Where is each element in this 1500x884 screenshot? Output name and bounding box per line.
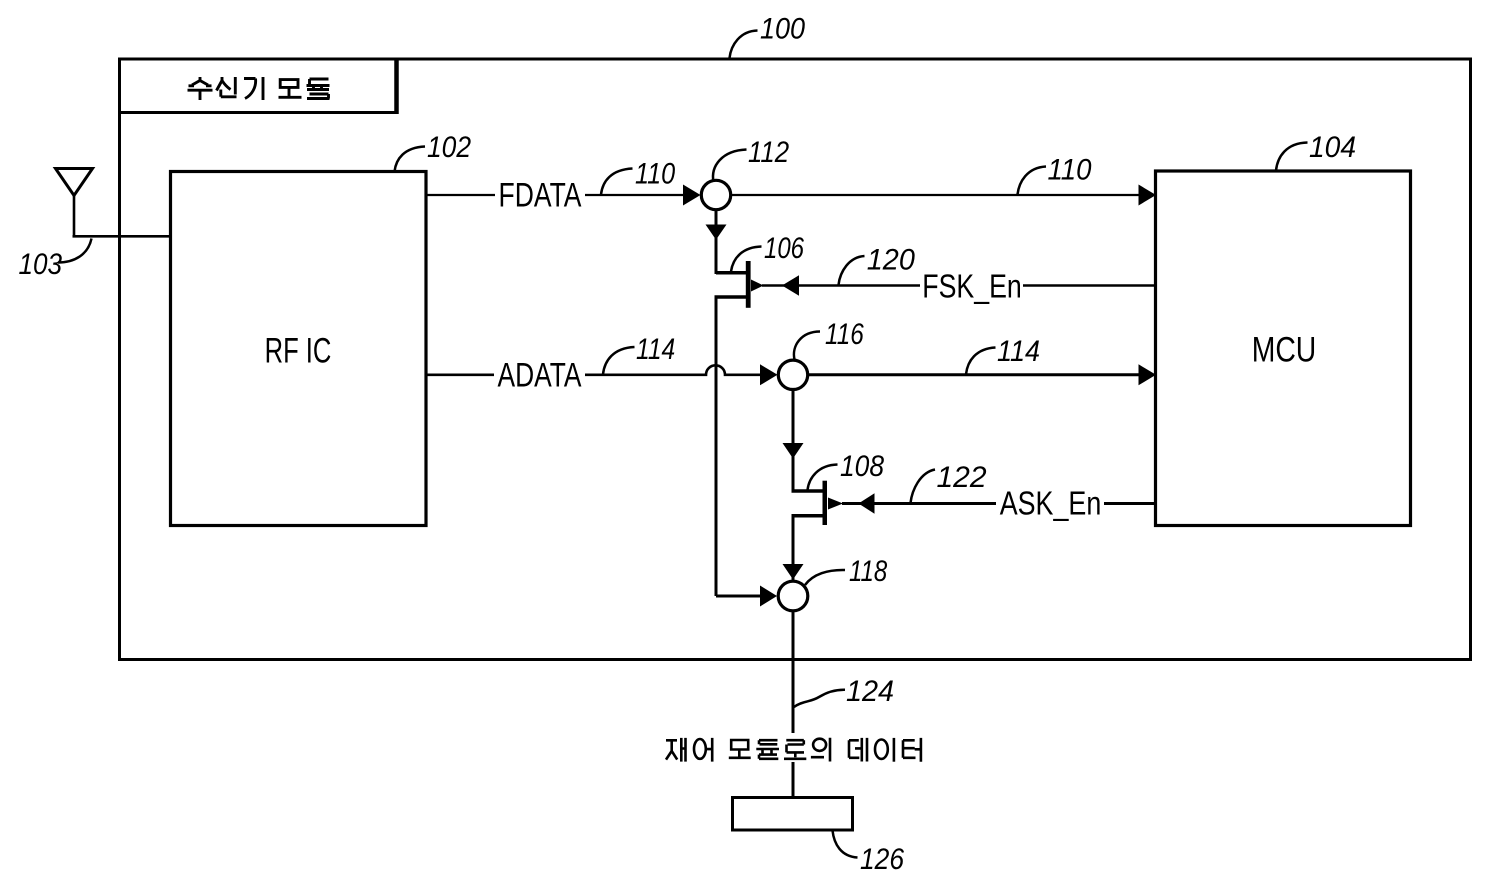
svg-text:116: 116 [825, 317, 864, 351]
FSK_En wire [762, 284, 1156, 286]
FSK_En arrowhead [782, 275, 799, 295]
label 116 leader [794, 332, 820, 360]
ADATA wire left [426, 373, 494, 376]
label 112 leader [713, 150, 746, 183]
svg-text:106: 106 [764, 230, 805, 264]
transistor 106 channel bar [746, 261, 751, 308]
transistor 106 source stub [715, 295, 747, 299]
label 114 leader (right) [966, 348, 996, 375]
svg-text:108: 108 [840, 448, 884, 482]
wire node 112 to MCU [731, 194, 1139, 196]
svg-text:102: 102 [427, 129, 471, 163]
svg-text:ADATA: ADATA [497, 356, 582, 394]
label 126 leader [833, 831, 858, 858]
FDATA wire to node [585, 194, 684, 196]
wire transistor 108 source down [792, 516, 795, 580]
svg-text:103: 103 [19, 247, 63, 280]
svg-text:118: 118 [849, 553, 887, 587]
transistor 106 drain stub [716, 271, 746, 275]
wire node 116 down [792, 390, 795, 491]
label 120 leader [839, 256, 865, 285]
svg-text:104: 104 [1309, 131, 1356, 164]
label 114 leader [603, 347, 635, 374]
svg-text:ASK_En: ASK_En [1000, 486, 1102, 522]
antenna wire [73, 194, 171, 236]
box 126 [733, 798, 853, 831]
arrowhead into node 112 [683, 185, 701, 206]
transistor 108 gate arrow [828, 498, 843, 510]
title text 수신기 모듈 (hand-drawn hangul) [188, 77, 330, 100]
down arrow below 112 [706, 225, 727, 240]
arrowhead into node 118 (left) [760, 586, 777, 607]
svg-text:120: 120 [867, 243, 916, 277]
svg-text:FSK_En: FSK_En [922, 269, 1022, 305]
transistor 108 channel bar [823, 481, 828, 525]
down arrow below 116 [783, 443, 804, 459]
wire node 112 down [715, 210, 718, 274]
svg-text:122: 122 [937, 461, 987, 494]
svg-text:100: 100 [760, 12, 805, 46]
FDATA wire left [426, 194, 495, 196]
ADATA wire with hop over vertical [585, 365, 761, 375]
antenna [56, 169, 93, 196]
label 100 leader [730, 31, 758, 59]
MCU block [1156, 171, 1411, 526]
ASK_En arrowhead [859, 493, 875, 513]
title box [120, 59, 397, 113]
ASK_En wire [842, 502, 1156, 505]
label 118 leader [805, 570, 845, 585]
node 116 circle [778, 360, 807, 389]
wire node 116 to MCU [808, 373, 1139, 376]
transistor 108 drain stub [792, 489, 824, 493]
label 103 leader [58, 239, 92, 263]
down arrow above 118 [783, 564, 804, 580]
svg-text:110: 110 [1048, 153, 1092, 186]
svg-text:110: 110 [635, 156, 676, 190]
arrowhead into node 116 [760, 364, 778, 385]
svg-text:124: 124 [846, 674, 894, 708]
svg-text:112: 112 [748, 135, 790, 168]
label 106 leader [731, 247, 762, 272]
node 118 circle [778, 581, 808, 611]
label 122 leader [911, 470, 936, 504]
RF IC block [171, 172, 427, 526]
svg-text:126: 126 [860, 841, 904, 875]
svg-text:RF IC: RF IC [265, 332, 332, 371]
outer box: receiver module [120, 59, 1471, 660]
label 104 leader [1276, 143, 1308, 171]
transistor 108 source stub [792, 514, 824, 518]
svg-text:MCU: MCU [1252, 330, 1317, 370]
transistor 106 gate arrow [751, 280, 764, 292]
node 112 circle [701, 180, 730, 209]
label 110 leader (right) [1018, 167, 1047, 195]
svg-text:114: 114 [997, 335, 1040, 369]
caption 제어 모듈로의 데이터 (hand-drawn hangul) [666, 738, 921, 762]
svg-text:114: 114 [636, 332, 675, 366]
arrowhead into MCU (ADATA) [1139, 364, 1157, 385]
svg-text:FDATA: FDATA [499, 176, 583, 214]
arrowhead into MCU (FDATA) [1139, 185, 1157, 206]
output wire to box 126 [792, 762, 795, 798]
label 124 leader [794, 690, 845, 707]
label 110 leader [601, 169, 633, 195]
label 102 leader [395, 147, 426, 172]
output wire down from node 118 [792, 612, 795, 734]
label 108 leader [808, 465, 838, 491]
long vertical wire from transistor 106 source to node 118 [716, 297, 761, 596]
